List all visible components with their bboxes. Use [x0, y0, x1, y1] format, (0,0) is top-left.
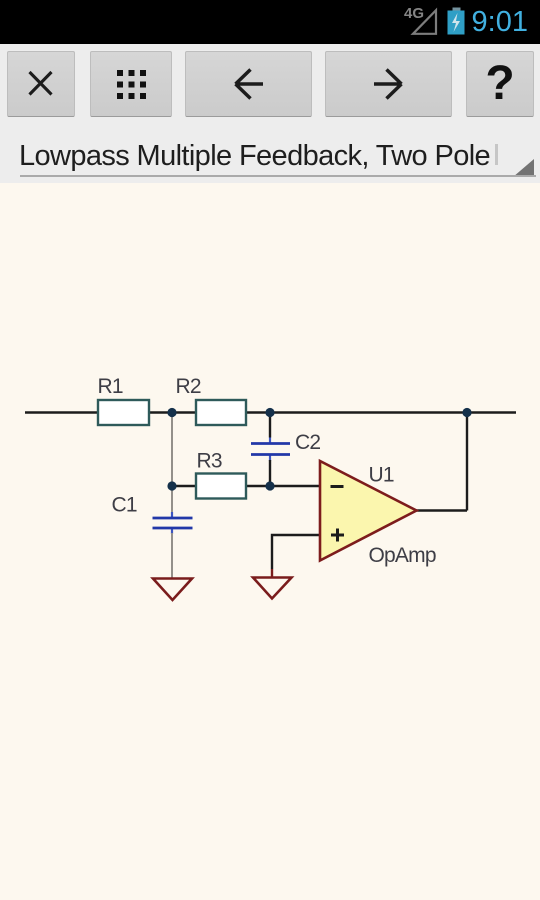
wire: node C down to C1 (gray) — [171, 486, 173, 512]
ground 1 — [153, 579, 192, 601]
wire: C2 to node D — [269, 460, 271, 486]
resistor R1 — [98, 400, 149, 425]
wire: C1 bottom lead stub — [171, 529, 173, 534]
svg-text:R2: R2 — [176, 375, 201, 398]
wire: node B to output node along top — [270, 411, 516, 413]
wire: C2 top lead stub — [269, 438, 271, 444]
svg-text:OpAmp: OpAmp — [369, 544, 436, 567]
svg-text:U1: U1 — [369, 464, 394, 487]
svg-text:R1: R1 — [98, 375, 123, 398]
left arrow icon — [236, 70, 264, 99]
grid icon — [117, 70, 146, 99]
wire: R2 to node B — [246, 411, 270, 413]
node A — [167, 408, 176, 417]
ground 2 — [253, 578, 292, 599]
node B — [265, 408, 274, 417]
wire: R1 to node A — [149, 411, 172, 413]
op-amp inverting pin mark — [331, 485, 344, 488]
wire: node A down to node C (gray) — [171, 413, 173, 487]
right arrow icon — [374, 70, 402, 99]
wire: node A to R2 — [172, 411, 196, 413]
wire: corner up to output node — [466, 413, 468, 511]
wire: R3 to op-amp inverting input — [246, 485, 320, 487]
wire: op-amp noninverting input to corner — [272, 535, 320, 569]
svg-text:C1: C1 — [112, 494, 137, 517]
node D — [265, 481, 274, 490]
op-amp U1 — [320, 461, 417, 561]
status bar — [0, 0, 540, 44]
wire: C2 bottom lead stub — [269, 456, 271, 462]
node C — [167, 481, 176, 490]
X icon — [30, 72, 52, 95]
wire: node B down to C2 — [269, 413, 271, 438]
wire: node C to R3 — [172, 485, 196, 487]
output node — [462, 408, 471, 417]
wire: C1 top lead stub — [171, 512, 173, 517]
capacitor C1 — [153, 518, 193, 528]
wire: corner down to ground 2 (maroon) — [271, 569, 273, 578]
resistor R2 — [196, 400, 246, 425]
op-amp noninverting pin mark — [331, 529, 344, 542]
wire: C1 to ground 1 (gray) — [171, 533, 173, 578]
svg-text:R3: R3 — [197, 450, 222, 473]
resistor R3 — [196, 474, 246, 499]
wire: input lead to R1 — [25, 411, 98, 413]
toolbar — [0, 44, 540, 183]
wire: op-amp output to corner — [417, 509, 468, 511]
spinner dropdown handle — [513, 159, 534, 177]
capacitor C2 — [251, 444, 290, 455]
svg-text:C2: C2 — [295, 431, 320, 454]
